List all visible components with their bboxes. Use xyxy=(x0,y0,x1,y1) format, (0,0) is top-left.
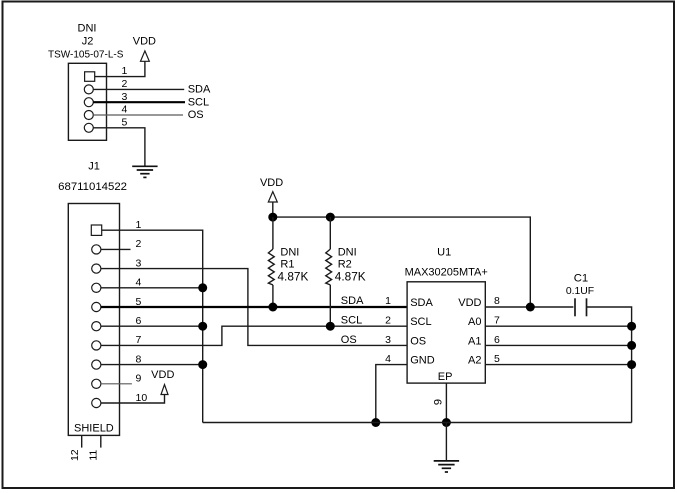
wire EP ground stem xyxy=(445,423,447,461)
J1 pin 10 circle xyxy=(92,398,101,407)
VDD rail to U1 pin8 xyxy=(273,217,531,307)
U1 pin number 6 xyxy=(494,334,500,346)
U1 pin number 8 xyxy=(494,295,500,307)
svg-text:2: 2 xyxy=(385,314,391,326)
net label SDA at U1 xyxy=(341,295,364,307)
J1 pin number 6 xyxy=(136,315,142,327)
U1 pin number 5 xyxy=(494,353,500,365)
U1 pin number 4 xyxy=(385,353,391,365)
svg-text:A0: A0 xyxy=(468,316,481,328)
R2 value 4.87K xyxy=(335,270,366,284)
svg-text:8: 8 xyxy=(494,295,500,307)
J1 pin number 5 xyxy=(136,296,142,308)
J2 pin number 1 xyxy=(122,65,128,77)
svg-text:1: 1 xyxy=(385,295,391,307)
svg-text:OS: OS xyxy=(341,334,357,346)
svg-text:3: 3 xyxy=(385,334,391,346)
J1 refdes xyxy=(88,160,100,172)
J1 pin 11 number (rotated) xyxy=(87,450,99,461)
junction R2/SCL xyxy=(326,322,335,331)
wire U1 A2 pin5 to rail xyxy=(485,364,631,366)
net label SCL xyxy=(188,96,209,108)
wire J1 pin6 xyxy=(101,325,203,327)
svg-text:DNI: DNI xyxy=(280,246,299,258)
VDD symbol at J2 xyxy=(133,35,156,61)
U1 pin name EP xyxy=(438,371,453,383)
J1 pin number 10 xyxy=(136,392,148,404)
svg-text:4: 4 xyxy=(136,277,142,289)
capacitor C1 xyxy=(575,298,587,316)
wire J2 pin2 SDA xyxy=(93,88,184,90)
wire U1 A0 pin7 to rail xyxy=(485,325,631,327)
J1 pin number 9 xyxy=(136,373,142,385)
wire U1 EP to rail xyxy=(445,383,447,422)
J2 pin 2 circle xyxy=(84,85,93,94)
U1 pin name VDD xyxy=(458,297,481,309)
svg-text:DNI: DNI xyxy=(338,246,357,258)
svg-text:11: 11 xyxy=(87,450,99,461)
U1 pin number 9 (EP, rotated) xyxy=(433,399,445,405)
svg-text:3: 3 xyxy=(122,91,128,103)
J2 pin 1 square xyxy=(85,72,95,82)
wire J1 pin4 xyxy=(101,287,203,289)
wire U1 GND pin4 to rail xyxy=(376,365,407,423)
svg-text:8: 8 xyxy=(136,353,142,365)
wire U1 VDD pin8 to C1 xyxy=(485,306,573,308)
wire J1 pin10 to VDD xyxy=(101,395,165,403)
junction VDD/R1 xyxy=(268,213,277,222)
junction pin8/rail xyxy=(198,360,207,369)
svg-text:7: 7 xyxy=(494,314,500,326)
svg-text:9: 9 xyxy=(433,399,445,405)
svg-text:SCL: SCL xyxy=(188,96,209,108)
svg-text:OS: OS xyxy=(410,335,426,347)
U1 pin name GND xyxy=(410,355,435,367)
net label OS at U1 xyxy=(341,334,357,346)
U1 pin name SCL xyxy=(410,316,431,328)
J1 value 68711014522 xyxy=(58,181,127,193)
svg-text:A1: A1 xyxy=(468,335,481,347)
wire J1 pin7 SCL to U1 xyxy=(101,326,407,345)
J2 pin 5 circle xyxy=(84,123,93,132)
resistor R2 xyxy=(326,217,332,326)
wire J1 pin9 stub (thin) xyxy=(101,383,132,385)
resistor R1 xyxy=(268,217,274,307)
bottom GND rail xyxy=(203,422,632,424)
svg-text:7: 7 xyxy=(136,334,142,346)
U1 pin name A0 xyxy=(468,316,481,328)
svg-text:EP: EP xyxy=(438,371,453,383)
svg-text:DNI: DNI xyxy=(78,22,97,34)
net label SDA xyxy=(188,83,211,95)
svg-text:6: 6 xyxy=(494,334,500,346)
wire J2 pin3 SCL (bold) xyxy=(93,101,185,103)
J1 pin 1 square xyxy=(91,225,101,235)
wire J1 pin2 stub xyxy=(101,248,131,250)
svg-text:2: 2 xyxy=(122,78,128,90)
junction A2/rail xyxy=(627,360,636,369)
J1 pin number 7 xyxy=(136,334,142,346)
wire J1 pin5 SDA to U1 (bold) xyxy=(101,306,407,308)
svg-text:0.1UF: 0.1UF xyxy=(566,286,594,297)
junction VDD vert/pin8 xyxy=(526,303,535,312)
junction pin4/rail xyxy=(198,283,207,292)
J1 pin number 4 xyxy=(136,277,142,289)
J1 pin 12 lead xyxy=(81,435,83,447)
svg-text:GND: GND xyxy=(410,355,435,367)
junction A0/rail xyxy=(627,322,636,331)
J1 pin 2 circle xyxy=(92,245,101,254)
J1 pin number 2 xyxy=(136,238,142,250)
svg-text:6: 6 xyxy=(136,315,142,327)
junction A1/rail xyxy=(627,341,636,350)
J1 pin number 3 xyxy=(136,257,142,269)
J2 pin number 2 xyxy=(122,78,128,90)
U1 pin number 3 xyxy=(385,334,391,346)
svg-text:SDA: SDA xyxy=(341,295,364,307)
wire J1 pin1 to GND rail (left vertical) xyxy=(102,230,203,422)
svg-text:5: 5 xyxy=(494,353,500,365)
J1 pin 7 circle xyxy=(92,341,101,350)
op-amp U1 body xyxy=(407,282,485,383)
R1 refdes xyxy=(280,259,294,271)
J1 pin 12 number (rotated) xyxy=(69,449,81,461)
svg-text:J1: J1 xyxy=(88,160,100,172)
J2 pin 4 circle xyxy=(84,111,93,120)
svg-text:SHIELD: SHIELD xyxy=(74,423,114,435)
J2 pin number 3 xyxy=(122,91,128,103)
svg-text:68711014522: 68711014522 xyxy=(58,181,127,193)
svg-text:3: 3 xyxy=(136,257,142,269)
J1 pin number 1 xyxy=(136,219,142,231)
J1 SHIELD label xyxy=(74,423,114,435)
junction GND/bottom rail xyxy=(371,418,380,427)
J1 pin number 8 xyxy=(136,353,142,365)
svg-text:SCL: SCL xyxy=(410,316,431,328)
J1 pin 11 lead xyxy=(100,435,102,447)
U1 pin number 2 xyxy=(385,314,391,326)
VDD symbol at J1 pin10 xyxy=(151,369,174,395)
wire J2 pin4 OS (thin) xyxy=(93,114,183,116)
wire VDD to rail xyxy=(272,202,274,217)
svg-text:C1: C1 xyxy=(574,272,588,284)
U1 pin number 1 xyxy=(385,295,391,307)
svg-text:A2: A2 xyxy=(468,355,481,367)
J2 refdes xyxy=(82,36,94,48)
R1 value 4.87K xyxy=(278,270,309,284)
wire J2 pin5 to ground xyxy=(93,128,145,167)
svg-text:5: 5 xyxy=(122,116,128,128)
U1 pin name SDA xyxy=(410,297,433,309)
J2 label DNI xyxy=(78,22,97,34)
net label SCL at U1 xyxy=(341,314,362,326)
C1 refdes xyxy=(574,272,588,284)
ground at EP xyxy=(434,461,459,472)
svg-text:VDD: VDD xyxy=(133,35,156,47)
U1 refdes xyxy=(437,246,451,258)
U1 pin number 7 xyxy=(494,314,500,326)
J1 pin 9 circle xyxy=(92,379,101,388)
J1 pin 4 circle xyxy=(92,283,101,292)
C1 value 0.1UF xyxy=(566,286,594,297)
svg-text:4: 4 xyxy=(385,353,391,365)
wire U1 A1 pin6 to rail xyxy=(485,344,631,346)
svg-text:U1: U1 xyxy=(437,246,451,258)
junction pin6/rail xyxy=(198,322,207,331)
svg-text:9: 9 xyxy=(136,373,142,385)
svg-text:4.87K: 4.87K xyxy=(335,270,366,284)
junction EP/bottom rail xyxy=(442,418,451,427)
svg-text:VDD: VDD xyxy=(151,369,174,381)
wire J1 pin3 to U1 OS xyxy=(101,269,407,346)
J2 pin 3 circle xyxy=(84,98,93,107)
wire C1 to right rail xyxy=(587,307,632,423)
ground at J2 xyxy=(132,166,157,177)
wire J2 pin1 to VDD xyxy=(95,61,145,76)
wire J1 pin8 xyxy=(101,364,203,366)
U1 value MAX30205MTA+ xyxy=(405,266,488,278)
J2 value TSW-105-07-L-S xyxy=(48,49,124,60)
svg-text:2: 2 xyxy=(136,238,142,250)
VDD symbol mid xyxy=(260,177,283,202)
svg-text:TSW-105-07-L-S: TSW-105-07-L-S xyxy=(48,49,124,60)
svg-text:10: 10 xyxy=(136,392,148,404)
svg-text:SCL: SCL xyxy=(341,314,362,326)
svg-text:4.87K: 4.87K xyxy=(278,270,309,284)
svg-text:SDA: SDA xyxy=(410,297,433,309)
J1 pin 3 circle xyxy=(92,264,101,273)
svg-text:12: 12 xyxy=(69,449,81,461)
svg-text:SDA: SDA xyxy=(188,83,211,95)
svg-text:VDD: VDD xyxy=(458,297,481,309)
R2 refdes xyxy=(338,259,352,271)
svg-text:J2: J2 xyxy=(82,36,94,48)
svg-text:1: 1 xyxy=(122,65,128,77)
svg-text:OS: OS xyxy=(188,109,204,121)
connector J1 body xyxy=(68,204,119,436)
junction VDD/R2 xyxy=(326,213,335,222)
R1 label DNI xyxy=(280,246,299,258)
connector J2 body xyxy=(68,63,106,140)
J2 pin number 4 xyxy=(122,104,128,116)
U1 pin name OS xyxy=(410,335,426,347)
svg-text:4: 4 xyxy=(122,104,128,116)
U1 pin name A2 xyxy=(468,355,481,367)
svg-text:1: 1 xyxy=(136,219,142,231)
J2 pin number 5 xyxy=(122,116,128,128)
junction R1/SDA xyxy=(268,303,277,312)
J1 pin 5 circle xyxy=(92,302,101,311)
R2 label DNI xyxy=(338,246,357,258)
J1 pin 8 circle xyxy=(92,360,101,369)
svg-text:MAX30205MTA+: MAX30205MTA+ xyxy=(405,266,488,278)
net label OS xyxy=(188,109,204,121)
svg-text:VDD: VDD xyxy=(260,177,283,189)
J1 pin 6 circle xyxy=(92,322,101,331)
U1 pin name A1 xyxy=(468,335,481,347)
